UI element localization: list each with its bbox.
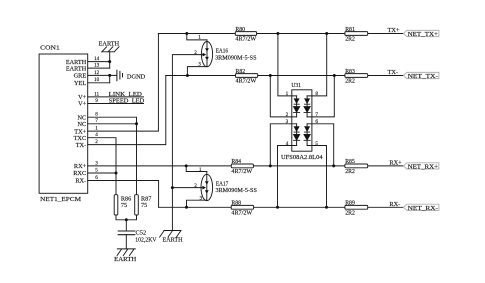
svg-text:2R2: 2R2 (345, 37, 355, 43)
svg-text:14: 14 (94, 56, 100, 62)
connector CON1 box (39, 54, 88, 193)
wire NC bus to R87 (136, 124, 138, 195)
svg-text:2: 2 (95, 139, 98, 145)
wire pin 2 TX- riser (88, 76, 166, 145)
tvs U31 diodes channel 6-5 (306, 124, 308, 146)
EA17 pin numbers (194, 167, 202, 202)
svg-text:12: 12 (94, 70, 100, 76)
node TXC/RXC join (115, 172, 118, 175)
port NET_RX- (404, 204, 439, 210)
svg-text:8: 8 (315, 91, 318, 97)
svg-text:NC: NC (77, 121, 86, 128)
svg-text:5: 5 (95, 167, 98, 173)
resistor R80 (235, 32, 256, 36)
wire pin 12 GRE to DGND (88, 74, 117, 76)
node RX- U31 pin5 tap (325, 206, 328, 209)
node TX+ U31 pin1 tap (276, 32, 279, 35)
wire U31 pin 5 (307, 146, 326, 208)
svg-text:13: 13 (94, 63, 100, 69)
node earth/pin14 (108, 60, 111, 63)
svg-text:5: 5 (315, 141, 318, 147)
svg-text:3: 3 (200, 196, 203, 202)
svg-text:75: 75 (141, 202, 147, 209)
node R86/R87 join (125, 218, 128, 221)
svg-text:RX+: RX+ (389, 160, 402, 167)
svg-text:8: 8 (95, 112, 98, 118)
svg-text:1: 1 (199, 167, 202, 173)
resistor R84 (231, 164, 253, 168)
svg-text:2: 2 (194, 183, 197, 189)
wire pin 6 RX- riser (88, 181, 159, 208)
capacitor C52 (118, 231, 135, 235)
svg-text:R89: R89 (345, 201, 355, 207)
wire pin 9 SPEED_LED (88, 103, 144, 105)
connector pin names (66, 59, 87, 185)
wire pin 13 EARTH (88, 67, 110, 69)
wire U31 pin 6 (307, 124, 334, 166)
tvs U31 diodes channel 8-7 (306, 96, 308, 117)
port NET_RX+ (404, 163, 439, 169)
svg-text:2R2: 2R2 (345, 79, 355, 85)
wire EA16 pin 2 / earth bus (172, 55, 202, 231)
svg-text:V+: V+ (78, 101, 87, 108)
node RX+ U31 pin6 tap (332, 164, 335, 167)
wire pin 11 LINK_LED (88, 96, 144, 98)
wire TX+ line (158, 33, 403, 35)
svg-text:NET_RX-: NET_RX- (408, 206, 438, 212)
svg-text:SPEED_LED: SPEED_LED (109, 98, 145, 105)
svg-text:NET_TX-: NET_TX- (408, 74, 438, 80)
svg-text:NET1_EPCM: NET1_EPCM (40, 196, 81, 203)
svg-text:6: 6 (95, 175, 98, 181)
svg-text:7: 7 (315, 112, 318, 118)
choke EA16 (201, 42, 212, 67)
node TX- EA16 tap (186, 74, 189, 77)
tvs U31 diodes channel 3-4 (296, 124, 298, 146)
svg-text:10: 10 (94, 77, 100, 83)
wire EA17 pin 2 (172, 187, 202, 189)
wire EA16 pin 3 (187, 67, 207, 76)
ground EARTH mid (160, 231, 181, 238)
resistor R87 (135, 195, 139, 215)
svg-text:R84: R84 (231, 159, 241, 165)
svg-text:R82: R82 (236, 69, 246, 75)
svg-text:75: 75 (121, 202, 127, 209)
svg-text:EARTH: EARTH (99, 41, 120, 48)
svg-text:4: 4 (286, 141, 289, 147)
tvs U31 diodes channel 1-2 (296, 96, 298, 117)
svg-text:2: 2 (194, 50, 197, 56)
svg-text:3: 3 (198, 62, 201, 68)
wire RX- line (159, 206, 404, 208)
svg-text:C52: C52 (136, 229, 147, 236)
svg-text:RX-: RX- (389, 201, 400, 208)
svg-text:YEL: YEL (74, 80, 86, 87)
wire pin 7 NC (88, 123, 137, 125)
svg-text:3: 3 (286, 119, 289, 125)
svg-text:UFS08A2.8L04: UFS08A2.8L04 (281, 155, 323, 161)
ground DGND (117, 70, 123, 81)
wire U31 pin 8 (307, 34, 327, 96)
choke EA17 (201, 174, 213, 200)
svg-text:EA17: EA17 (216, 180, 228, 187)
wire junction to C52 (125, 220, 127, 231)
svg-text:1: 1 (198, 35, 201, 41)
svg-text:EA16: EA16 (216, 47, 228, 54)
node RX- EA17 tap (185, 206, 188, 209)
svg-text:102,2KV: 102,2KV (135, 237, 157, 244)
resistor R86 (114, 195, 118, 215)
wire EA17 pin 3 (187, 200, 207, 207)
node TX- U31 pin7 tap (333, 74, 336, 77)
svg-text:11: 11 (94, 91, 99, 97)
svg-text:NET_TX+: NET_TX+ (408, 32, 439, 38)
svg-text:3RM090M-5-SS: 3RM090M-5-SS (216, 188, 257, 194)
svg-text:3RM090M-5-SS: 3RM090M-5-SS (215, 56, 256, 62)
wire pin 8 NC (88, 117, 137, 124)
svg-text:TX+: TX+ (388, 27, 400, 34)
svg-text:RX+: RX+ (74, 163, 87, 170)
connector pin numbers (94, 56, 100, 181)
wire U31 pin 1 (278, 34, 297, 96)
wire EA17 pin 1 (186, 166, 207, 172)
svg-text:R80: R80 (235, 27, 245, 33)
node RX+ EA17 tap (185, 164, 188, 167)
EA16 pin numbers (194, 35, 201, 68)
wire earth-symbol drop (109, 52, 111, 68)
svg-text:4: 4 (95, 132, 98, 138)
wire R86 R87 bottoms (116, 215, 137, 220)
U31 pin numbers (286, 91, 319, 147)
wire EA16 pin 1 (187, 34, 207, 40)
wire U31 pin 2 (270, 76, 296, 117)
svg-text:2: 2 (286, 112, 289, 118)
resistor labels (231, 27, 355, 217)
tvs U31 box (292, 90, 312, 151)
svg-text:RX-: RX- (75, 178, 86, 185)
svg-text:TX-: TX- (388, 69, 399, 76)
wire pin 1 TX+ riser (88, 34, 159, 132)
wire pin 10 YEL (88, 82, 110, 84)
svg-text:U31: U31 (291, 83, 301, 89)
svg-text:R83: R83 (345, 69, 355, 75)
svg-text:TX-: TX- (76, 142, 87, 149)
resistor R85 (345, 164, 368, 168)
svg-text:DGND: DGND (127, 73, 146, 80)
svg-text:NET_RX+: NET_RX+ (408, 164, 439, 170)
resistor R89 (345, 205, 368, 209)
wire pin 3 RX+ line (88, 165, 404, 167)
node NC join (135, 122, 138, 125)
wire U31 pin 4 (278, 146, 297, 208)
svg-text:EARTH: EARTH (114, 256, 137, 263)
wire U31 pin 3 (270, 124, 296, 166)
svg-text:7: 7 (95, 118, 98, 124)
node dgnd/pin12 (108, 74, 111, 77)
svg-text:2R2: 2R2 (345, 169, 355, 175)
port NET_TX+ (404, 30, 439, 36)
svg-text:R88: R88 (231, 201, 241, 207)
svg-text:3: 3 (95, 160, 98, 166)
ground EARTH bottom (117, 249, 135, 256)
svg-text:4R7/2W: 4R7/2W (231, 169, 252, 175)
wire pin 5 RXC (88, 172, 116, 174)
wire C52 to earth (125, 235, 127, 249)
svg-text:R85: R85 (345, 159, 355, 165)
svg-text:4R7/2W: 4R7/2W (236, 79, 257, 85)
node TX+ EA16 tap (185, 32, 188, 35)
svg-text:1: 1 (286, 91, 289, 97)
svg-text:CON1: CON1 (40, 45, 60, 52)
node TX+ U31 pin8 tap (325, 32, 328, 35)
node RX+ U31 pin3 tap (269, 164, 272, 167)
resistor R81 (345, 32, 368, 36)
svg-text:EARTH: EARTH (66, 65, 87, 72)
wire pin 4 TXC to R86 (88, 138, 116, 195)
resistor R88 (231, 205, 253, 209)
svg-text:1: 1 (95, 126, 98, 132)
node TX- U31 pin2 tap (269, 74, 272, 77)
port NET_TX- (404, 72, 439, 78)
wire TX- line (166, 75, 404, 77)
resistor R83 (345, 74, 368, 78)
wire U31 pin 7 (307, 76, 334, 117)
svg-text:9: 9 (95, 98, 98, 104)
svg-text:6: 6 (315, 119, 318, 125)
svg-text:2R2: 2R2 (345, 211, 355, 217)
svg-text:RXC: RXC (73, 170, 86, 177)
svg-text:GRE: GRE (74, 73, 87, 80)
resistor R82 (236, 74, 258, 78)
svg-text:EARTH: EARTH (163, 236, 183, 243)
svg-text:4R7/2W: 4R7/2W (235, 37, 256, 43)
wire pin 14 EARTH (88, 61, 110, 63)
node EA17 pin2 on earth bus (171, 186, 174, 189)
wire dgnd vertical (109, 75, 111, 82)
svg-text:R81: R81 (345, 27, 355, 33)
svg-text:4R7/2W: 4R7/2W (231, 211, 252, 217)
ground EARTH top (102, 47, 119, 52)
node RX- U31 pin4 tap (276, 206, 279, 209)
